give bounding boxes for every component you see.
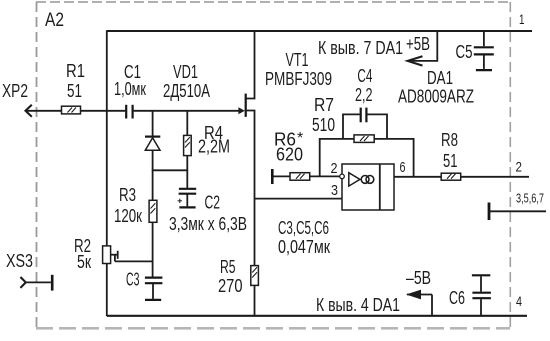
svg-text:К выв. 4 DA1: К выв. 4 DA1 [316, 295, 400, 315]
svg-text:C2: C2 [205, 193, 221, 213]
svg-text:VT1: VT1 [286, 50, 309, 70]
svg-text:R3: R3 [119, 185, 136, 205]
svg-text:270: 270 [218, 276, 243, 296]
svg-text:510: 510 [312, 115, 335, 135]
svg-text:R1: R1 [66, 61, 85, 81]
svg-text:AD8009ARZ: AD8009ARZ [398, 87, 474, 107]
svg-text:620: 620 [276, 145, 303, 165]
svg-text:3: 3 [331, 182, 338, 199]
svg-text:C5: C5 [456, 42, 473, 62]
svg-text:2: 2 [516, 159, 523, 175]
svg-text:R8: R8 [441, 130, 458, 150]
svg-text:+5В: +5В [406, 34, 430, 54]
svg-text:XS3: XS3 [6, 251, 33, 271]
svg-text:3,3мк х 6,3В: 3,3мк х 6,3В [169, 214, 247, 234]
svg-text:PMBFJ309: PMBFJ309 [265, 69, 332, 89]
svg-text:C3,C5,C6: C3,C5,C6 [278, 218, 329, 238]
svg-text:C6: C6 [449, 288, 465, 308]
svg-text:VD1: VD1 [173, 62, 198, 82]
svg-text:2,2: 2,2 [355, 85, 373, 105]
svg-text:C4: C4 [357, 66, 372, 86]
svg-text:R5: R5 [220, 257, 236, 277]
svg-text:51: 51 [67, 81, 82, 101]
svg-text:1: 1 [519, 11, 525, 27]
svg-text:5к: 5к [77, 252, 91, 272]
svg-text:3,5,6,7: 3,5,6,7 [516, 192, 544, 206]
svg-text:A2: A2 [45, 9, 64, 31]
svg-text:51: 51 [443, 151, 458, 171]
svg-text:XP2: XP2 [2, 81, 28, 101]
svg-text:DA1: DA1 [427, 68, 453, 88]
svg-text:C3: C3 [126, 270, 140, 290]
svg-text:К выв. 7 DA1: К выв. 7 DA1 [318, 38, 403, 58]
svg-text:4: 4 [516, 293, 522, 309]
svg-text:1,0мк: 1,0мк [114, 79, 146, 99]
svg-text:2Д510А: 2Д510А [163, 81, 210, 101]
svg-text:R7: R7 [314, 95, 334, 115]
svg-text:2: 2 [331, 160, 338, 177]
svg-text:–5В: –5В [406, 268, 431, 288]
svg-text:2,2M: 2,2M [198, 137, 230, 157]
svg-text:120к: 120к [114, 206, 142, 226]
svg-text:6: 6 [400, 159, 406, 176]
svg-text:0,047мк: 0,047мк [278, 237, 330, 257]
